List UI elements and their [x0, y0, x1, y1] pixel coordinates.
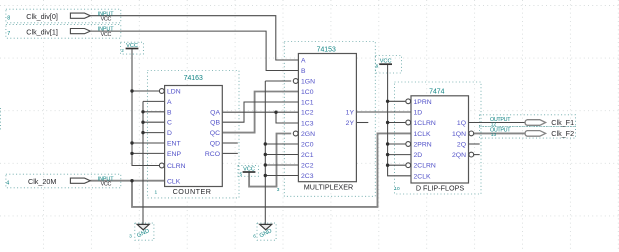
svg-text:LDN: LDN — [167, 89, 181, 96]
svg-text:7: 7 — [7, 31, 10, 37]
svg-text:Clk_20M: Clk_20M — [28, 177, 56, 186]
svg-text:12: 12 — [491, 122, 497, 128]
svg-text:QD: QD — [210, 141, 220, 148]
svg-text:1: 1 — [155, 189, 158, 195]
svg-text:ENT: ENT — [167, 141, 181, 148]
svg-text:2C0: 2C0 — [301, 142, 314, 149]
svg-text:A: A — [301, 58, 306, 65]
svg-text:VCC: VCC — [101, 17, 112, 23]
svg-text:1QN: 1QN — [452, 131, 466, 138]
svg-text:1C0: 1C0 — [301, 89, 314, 96]
svg-text:6: 6 — [253, 234, 256, 239]
svg-text:1CLRN: 1CLRN — [414, 120, 436, 127]
svg-text:Clk_div[1]: Clk_div[1] — [26, 27, 58, 36]
svg-text:74153: 74153 — [317, 47, 336, 54]
svg-text:4: 4 — [6, 180, 9, 186]
svg-text:C: C — [167, 120, 172, 127]
svg-text:ENP: ENP — [167, 151, 181, 158]
svg-text:A: A — [167, 99, 172, 106]
svg-text:Clk_div[0]: Clk_div[0] — [26, 12, 58, 21]
svg-text:QA: QA — [210, 109, 220, 116]
svg-text:3: 3 — [277, 187, 280, 193]
svg-text:1GN: 1GN — [301, 79, 315, 86]
svg-text:1C2: 1C2 — [301, 110, 314, 117]
svg-text:13: 13 — [491, 132, 497, 138]
svg-text:RCO: RCO — [205, 151, 220, 158]
svg-text:VCC: VCC — [101, 32, 112, 38]
svg-text:2CLK: 2CLK — [414, 173, 431, 180]
svg-text:7474: 7474 — [429, 89, 444, 96]
svg-text:1CLK: 1CLK — [414, 131, 431, 138]
svg-text:1D: 1D — [414, 110, 423, 117]
svg-text:2C2: 2C2 — [301, 163, 314, 170]
svg-text:2C1: 2C1 — [301, 152, 314, 159]
svg-text:B: B — [167, 109, 172, 116]
svg-text:1C3: 1C3 — [301, 121, 314, 128]
svg-text:3: 3 — [129, 234, 132, 239]
svg-text:B: B — [301, 68, 306, 75]
svg-text:2: 2 — [121, 48, 124, 53]
svg-text:2QN: 2QN — [452, 152, 466, 159]
svg-text:1C1: 1C1 — [301, 100, 314, 107]
svg-text:Clk_F2: Clk_F2 — [551, 129, 574, 138]
svg-text:2C3: 2C3 — [301, 173, 314, 180]
svg-text:QB: QB — [210, 120, 220, 127]
svg-text:MULTIPLEXER: MULTIPLEXER — [304, 182, 353, 191]
svg-text:VCC: VCC — [101, 182, 112, 188]
svg-text:CLRN: CLRN — [167, 163, 186, 170]
svg-text:10: 10 — [394, 186, 400, 192]
svg-text:2GN: 2GN — [301, 131, 315, 138]
svg-text:2Q: 2Q — [457, 142, 466, 149]
svg-text:1Q: 1Q — [457, 120, 466, 127]
svg-text:2Y: 2Y — [346, 120, 355, 127]
svg-text:1PRN: 1PRN — [414, 99, 432, 106]
svg-text:COUNTER: COUNTER — [173, 187, 212, 196]
svg-text:D: D — [167, 130, 172, 137]
svg-text:CLK: CLK — [167, 179, 181, 186]
svg-text:74163: 74163 — [184, 75, 203, 82]
svg-text:QC: QC — [210, 130, 220, 137]
svg-text:1Y: 1Y — [346, 110, 355, 117]
svg-text:9: 9 — [376, 64, 379, 69]
svg-text:2D: 2D — [414, 152, 423, 159]
svg-text:D FLIP-FLOPS: D FLIP-FLOPS — [416, 184, 465, 193]
svg-text:8: 8 — [7, 16, 10, 22]
svg-text:2CLRN: 2CLRN — [414, 163, 436, 170]
svg-text:5: 5 — [240, 171, 243, 176]
svg-text:Clk_F1: Clk_F1 — [551, 118, 574, 127]
svg-text:2PRN: 2PRN — [414, 142, 432, 149]
